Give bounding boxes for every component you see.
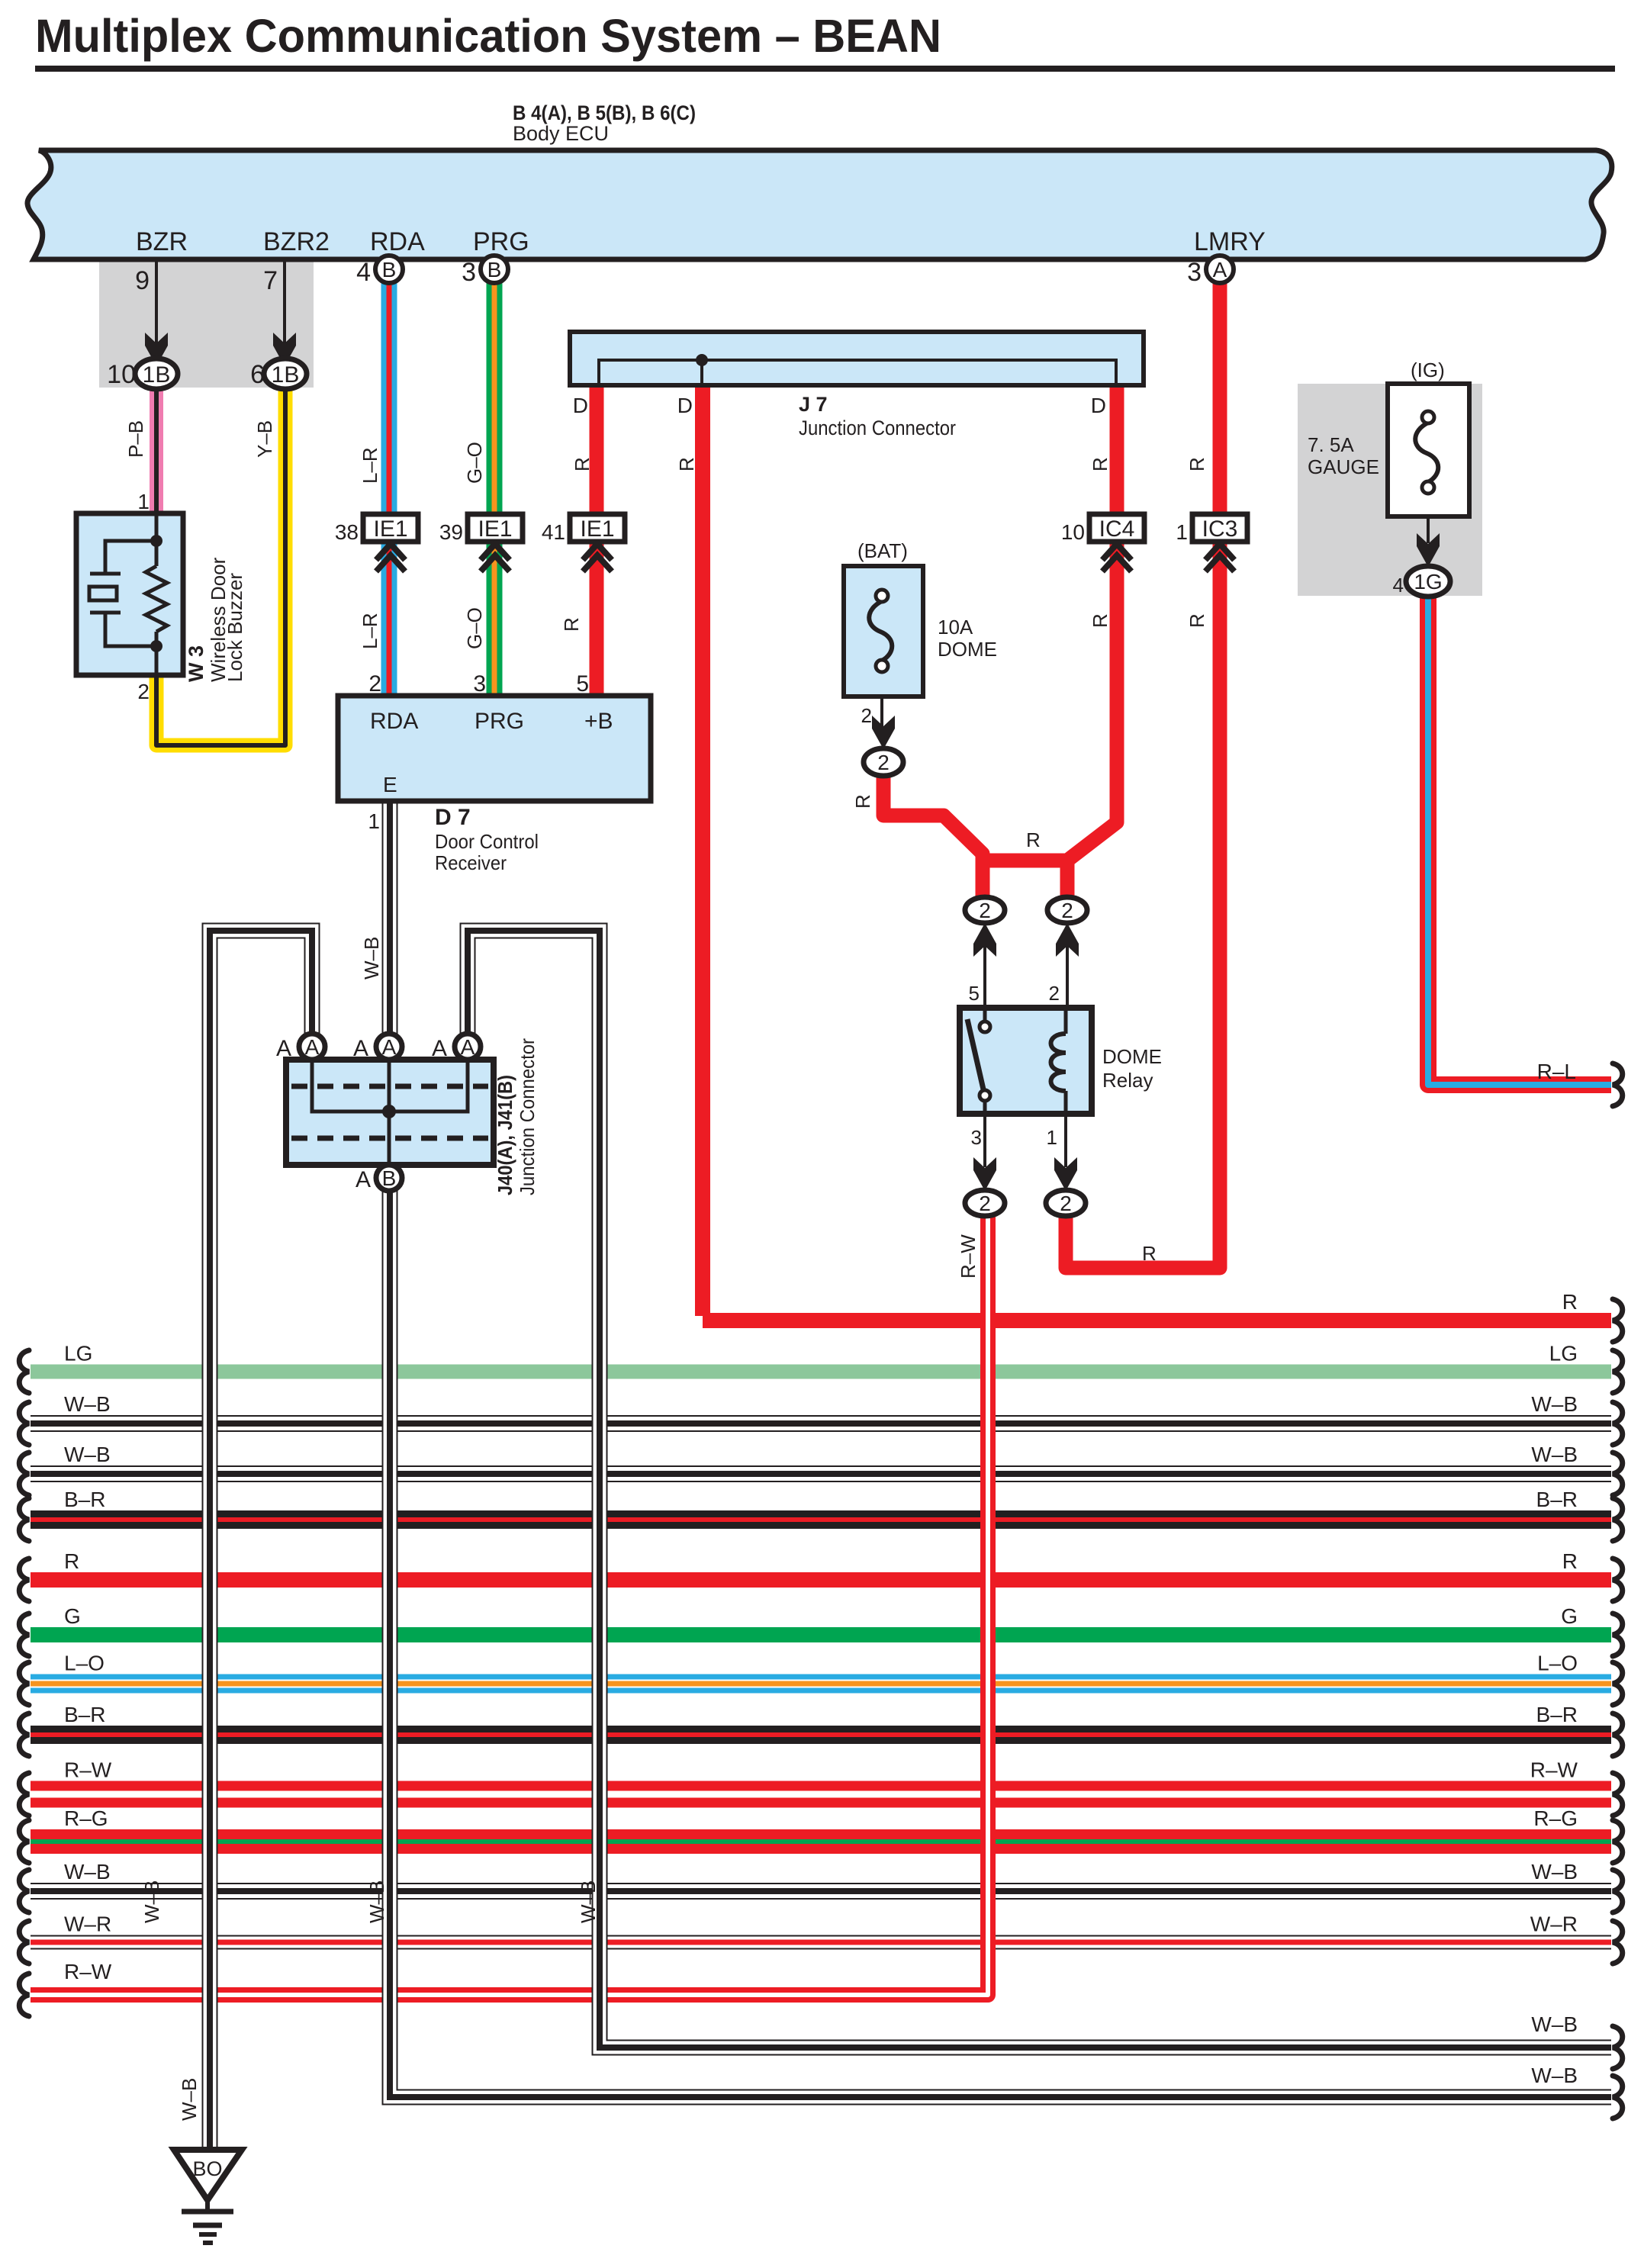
svg-text:B–R: B–R [1536, 1488, 1578, 1511]
svg-text:DOME: DOME [938, 638, 997, 661]
svg-text:R: R [1186, 457, 1208, 471]
svg-text:10: 10 [107, 360, 136, 389]
svg-text:R: R [851, 794, 874, 809]
svg-text:RDA: RDA [370, 709, 418, 734]
svg-text:W–B: W–B [178, 2078, 201, 2121]
svg-text:R–G: R–G [64, 1806, 108, 1830]
svg-text:6: 6 [250, 360, 265, 389]
svg-text:4: 4 [1393, 574, 1404, 597]
svg-text:R: R [560, 617, 583, 632]
svg-text:J40(A), J41(B): J40(A), J41(B) [494, 1075, 516, 1195]
svg-text:BZR2: BZR2 [263, 227, 330, 256]
svg-text:W–R: W–R [1530, 1913, 1578, 1936]
svg-text:Junction Connector: Junction Connector [799, 417, 956, 439]
svg-text:B: B [382, 258, 397, 281]
svg-text:IC3: IC3 [1202, 516, 1238, 542]
svg-text:W 3: W 3 [185, 645, 208, 682]
svg-text:1: 1 [1176, 520, 1188, 544]
svg-text:R: R [64, 1549, 79, 1573]
svg-text:R: R [1089, 457, 1112, 471]
svg-text:2: 2 [877, 751, 890, 774]
svg-text:Multiplex Communication System: Multiplex Communication System – BEAN [35, 10, 941, 62]
svg-text:(BAT): (BAT) [857, 539, 908, 562]
svg-text:A: A [1213, 258, 1227, 281]
svg-text:Lock Buzzer: Lock Buzzer [224, 573, 246, 682]
svg-text:PRG: PRG [475, 709, 524, 734]
svg-text:RDA: RDA [370, 227, 425, 256]
svg-text:IE1: IE1 [580, 516, 614, 542]
svg-text:R: R [1089, 613, 1112, 628]
svg-text:A: A [305, 1035, 320, 1059]
svg-text:D: D [1091, 394, 1106, 417]
svg-text:W–B: W–B [1531, 1860, 1578, 1884]
svg-text:Y–B: Y–B [253, 420, 276, 458]
svg-text:2: 2 [1061, 899, 1073, 922]
svg-text:LMRY: LMRY [1194, 227, 1266, 256]
svg-text:W–B: W–B [1531, 1443, 1578, 1466]
svg-text:Receiver: Receiver [435, 851, 507, 874]
svg-text:D: D [573, 394, 588, 417]
svg-text:G–O: G–O [463, 607, 486, 649]
svg-text:7: 7 [263, 266, 278, 295]
svg-text:IE1: IE1 [373, 516, 407, 542]
svg-text:R: R [1142, 1242, 1157, 1265]
svg-text:5: 5 [576, 671, 589, 696]
svg-text:3: 3 [473, 671, 486, 696]
svg-text:3: 3 [1187, 258, 1202, 287]
svg-text:(IG): (IG) [1411, 359, 1445, 381]
svg-text:R–G: R–G [1533, 1806, 1578, 1830]
svg-text:2: 2 [368, 671, 381, 696]
svg-text:L–R: L–R [359, 447, 381, 484]
svg-text:G: G [64, 1604, 81, 1628]
svg-text:A: A [353, 1036, 368, 1061]
svg-text:BO: BO [192, 2157, 222, 2180]
svg-text:W–B: W–B [360, 937, 383, 980]
svg-text:G: G [1561, 1604, 1578, 1628]
svg-text:1G: 1G [1414, 570, 1442, 594]
svg-text:BZR: BZR [136, 227, 188, 256]
svg-text:2: 2 [1060, 1192, 1072, 1215]
svg-text:A: A [356, 1167, 371, 1192]
svg-text:Door Control: Door Control [435, 830, 539, 853]
svg-text:R: R [1026, 828, 1041, 851]
svg-text:W–B: W–B [365, 1880, 388, 1923]
svg-text:W–B: W–B [577, 1880, 600, 1923]
svg-text:R–L: R–L [1537, 1060, 1576, 1083]
svg-text:38: 38 [335, 520, 359, 544]
svg-text:R: R [1186, 613, 1208, 628]
svg-text:W–B: W–B [64, 1443, 111, 1466]
svg-text:W–B: W–B [1531, 2012, 1578, 2036]
svg-text:L–R: L–R [359, 613, 381, 649]
svg-text:D 7: D 7 [435, 805, 471, 830]
svg-text:L–O: L–O [64, 1652, 105, 1675]
svg-text:3: 3 [971, 1126, 982, 1149]
svg-text:7. 5A: 7. 5A [1308, 433, 1354, 456]
svg-text:R: R [675, 457, 698, 471]
svg-text:B–R: B–R [64, 1488, 105, 1511]
svg-text:3: 3 [462, 258, 476, 287]
svg-text:+B: +B [584, 709, 613, 734]
svg-text:Junction Connector: Junction Connector [516, 1038, 539, 1195]
svg-text:J 7: J 7 [799, 393, 828, 416]
svg-text:W–R: W–R [64, 1913, 111, 1936]
svg-text:1: 1 [137, 490, 150, 513]
svg-text:R–W: R–W [957, 1234, 980, 1279]
svg-text:R–W: R–W [64, 1758, 112, 1782]
svg-text:R: R [571, 457, 594, 471]
svg-text:E: E [383, 773, 397, 796]
svg-text:41: 41 [542, 520, 565, 544]
svg-text:PRG: PRG [473, 227, 529, 256]
svg-text:GAUGE: GAUGE [1308, 455, 1379, 478]
svg-text:R: R [1562, 1290, 1578, 1314]
svg-text:2: 2 [1049, 982, 1060, 1005]
svg-text:5: 5 [969, 982, 980, 1005]
svg-text:L–O: L–O [1537, 1652, 1578, 1675]
svg-text:Body ECU: Body ECU [513, 122, 609, 145]
svg-text:P–B: P–B [124, 420, 147, 458]
svg-text:R–W: R–W [1530, 1758, 1578, 1782]
svg-text:LG: LG [64, 1342, 92, 1366]
svg-text:2: 2 [137, 680, 150, 703]
svg-text:1B: 1B [272, 362, 300, 388]
svg-text:W–B: W–B [64, 1860, 111, 1884]
svg-text:IC4: IC4 [1099, 516, 1135, 542]
svg-text:B 4(A), B 5(B), B 6(C): B 4(A), B 5(B), B 6(C) [513, 101, 696, 124]
svg-text:2: 2 [861, 704, 872, 727]
svg-text:2: 2 [979, 899, 991, 922]
svg-text:W–B: W–B [140, 1880, 163, 1923]
svg-text:R: R [1562, 1549, 1578, 1573]
svg-text:W–B: W–B [1531, 2064, 1578, 2087]
svg-text:9: 9 [135, 266, 150, 295]
svg-text:DOME: DOME [1102, 1045, 1162, 1068]
svg-text:1B: 1B [143, 362, 171, 388]
svg-text:W–B: W–B [1531, 1392, 1578, 1416]
svg-text:10A: 10A [938, 616, 973, 639]
svg-text:D: D [677, 394, 693, 417]
svg-text:IE1: IE1 [478, 516, 512, 542]
svg-text:B: B [382, 1166, 397, 1190]
svg-text:G–O: G–O [463, 442, 486, 484]
svg-text:A: A [461, 1035, 475, 1059]
svg-text:B–R: B–R [64, 1703, 105, 1726]
svg-text:1: 1 [1047, 1126, 1057, 1149]
svg-text:B: B [487, 258, 502, 281]
svg-text:A: A [382, 1035, 397, 1059]
svg-text:A: A [276, 1036, 291, 1061]
svg-text:2: 2 [979, 1192, 991, 1215]
svg-text:A: A [432, 1036, 447, 1061]
svg-text:B–R: B–R [1536, 1703, 1578, 1726]
svg-text:1: 1 [368, 809, 380, 833]
svg-text:R–W: R–W [64, 1960, 112, 1983]
svg-text:W–B: W–B [64, 1392, 111, 1416]
svg-text:LG: LG [1549, 1342, 1578, 1366]
svg-text:39: 39 [439, 520, 463, 544]
svg-text:10: 10 [1061, 520, 1085, 544]
svg-text:4: 4 [356, 258, 371, 287]
svg-text:Relay: Relay [1102, 1069, 1153, 1092]
